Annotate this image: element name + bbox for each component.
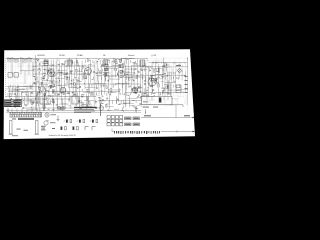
svg-text:Gedruckt in W.-Germany 8 HG 5: Gedruckt in W.-Germany 8 HG 58 [49,134,76,137]
svg-text:ZF/AM: ZF/AM [77,54,83,57]
svg-text:( ) 5W: ( ) 5W [151,55,156,57]
svg-text:UKW/FM: UKW/FM [37,55,45,57]
svg-text:ZF/FM: ZF/FM [59,55,65,57]
svg-text:Netzteil: Netzteil [128,54,135,57]
